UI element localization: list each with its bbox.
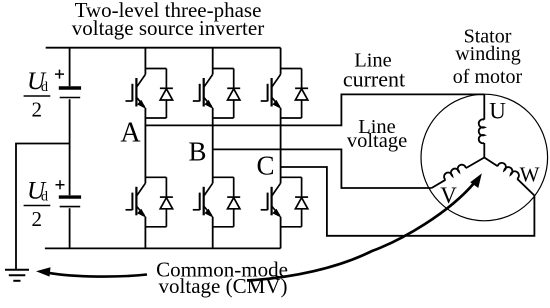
capacitor C1 upper xyxy=(59,88,81,98)
label: + of C2 xyxy=(56,180,65,189)
winding U xyxy=(479,94,485,157)
motor stator circle xyxy=(421,94,548,221)
wire: DC-link capacitor rail xyxy=(69,48,71,249)
arrow: CMV to ground xyxy=(36,267,147,276)
svg-text:voltage source inverter: voltage source inverter xyxy=(72,16,264,40)
svg-text:V: V xyxy=(440,183,457,208)
wire: inverter leg A xyxy=(144,48,146,249)
svg-text:d: d xyxy=(41,80,48,95)
svg-text:current: current xyxy=(343,67,405,92)
label: + of C1 xyxy=(55,70,64,79)
label: Common-mode voltage (CMV) xyxy=(156,258,288,299)
svg-text:U: U xyxy=(489,99,506,124)
ground xyxy=(5,270,29,281)
label: Stator winding of motor xyxy=(453,25,523,88)
wire: bottom DC bus xyxy=(45,247,281,249)
wire: inverter leg C xyxy=(280,48,282,249)
IGBT Q1 (phase A upper) with diode D1 xyxy=(125,69,172,119)
label: Line voltage xyxy=(347,116,407,152)
title: Two-level three-phase voltage source inverter xyxy=(72,0,264,40)
capacitor C2 lower xyxy=(59,197,81,207)
svg-text:voltage: voltage xyxy=(347,130,407,152)
svg-text:B: B xyxy=(188,136,206,166)
wire: phase C output to motor W xyxy=(281,167,535,236)
winding V xyxy=(432,158,485,189)
IGBT Q2 (phase B upper) with diode D2 xyxy=(193,69,240,119)
svg-text:d: d xyxy=(41,190,48,205)
arrow: CMV to motor star point xyxy=(247,173,482,280)
IGBT Q6 (phase C lower) with diode D6 xyxy=(261,177,308,227)
label: Ud/2 upper xyxy=(27,68,48,121)
svg-text:2: 2 xyxy=(32,98,43,122)
svg-text:2: 2 xyxy=(32,207,43,231)
svg-text:of motor: of motor xyxy=(453,66,523,88)
svg-text:A: A xyxy=(120,118,141,149)
label: Line current xyxy=(343,50,405,92)
wire: phase A output to motor U xyxy=(145,94,484,125)
svg-text:winding: winding xyxy=(455,43,521,65)
wire: top DC bus xyxy=(46,47,281,49)
IGBT Q3 (phase C upper) with diode D3 xyxy=(261,69,308,119)
wire: phase B output to motor V xyxy=(213,149,432,188)
wire: capacitor midpoint to ground xyxy=(16,144,70,270)
IGBT Q4 (phase A lower) with diode D4 xyxy=(125,177,172,227)
winding W xyxy=(484,158,534,196)
label: Ud/2 lower xyxy=(27,178,48,231)
svg-text:W: W xyxy=(520,163,540,187)
svg-text:C: C xyxy=(256,151,274,181)
wire: inverter leg B xyxy=(212,48,214,249)
IGBT Q5 (phase B lower) with diode D5 xyxy=(193,177,240,227)
